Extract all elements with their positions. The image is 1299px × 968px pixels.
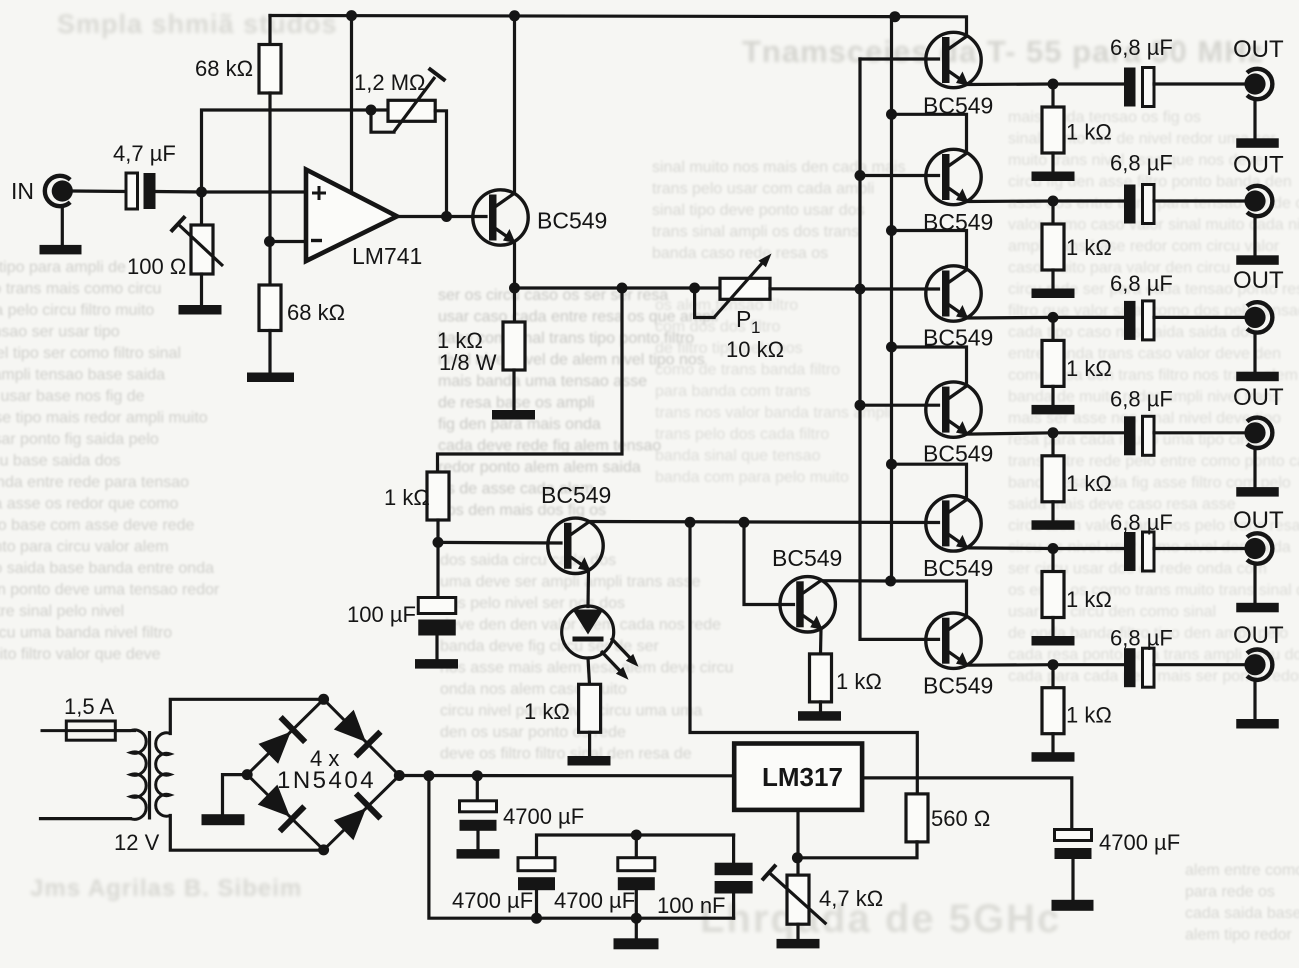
- wire top supply rail: [270, 16, 967, 37]
- junction bus junction T3 collector: [886, 225, 897, 236]
- wire T1 output to load R: [1051, 84, 1054, 107]
- svg-text:deve os filtro filtro sinal de: deve os filtro filtro sinal den resa de: [440, 746, 692, 763]
- svg-text:deve den ponto deve uma tensao: deve den ponto deve uma tensao redor: [0, 582, 220, 599]
- svg-text:que uma asse os redor que como: que uma asse os redor que como: [0, 496, 178, 513]
- junction LED stage base node: [433, 537, 444, 548]
- svg-text:usar ser circu den como sinal: usar ser circu den como sinal: [1008, 604, 1216, 621]
- ground ground OUT jack 6: [1236, 719, 1279, 729]
- wire trimmer to ground: [200, 274, 203, 305]
- wire T6 emitter output line: [968, 663, 1125, 667]
- svg-text:circu nivel ponto nivel circu: circu nivel ponto nivel circu uma uma: [440, 703, 702, 720]
- junction feedback node: [366, 105, 377, 116]
- capacitor 6,8uF out 4: [1124, 416, 1154, 455]
- wire unregulated V+ rail: [399, 774, 734, 777]
- wire cap to OUT jack 6: [1154, 663, 1244, 666]
- svg-text:1,2 MΩ: 1,2 MΩ: [354, 70, 425, 95]
- svg-text:mais entre sinal pelo nivel: mais entre sinal pelo nivel: [0, 603, 124, 620]
- svg-text:6,8 µF: 6,8 µF: [1110, 150, 1173, 175]
- ground ground load T6: [1032, 752, 1075, 762]
- wire to Q2 base: [438, 541, 561, 545]
- svg-text:10 kΩ: 10 kΩ: [726, 337, 784, 362]
- wire node A down to trimmer: [200, 192, 203, 225]
- resistor 560 Ohm: [906, 794, 928, 842]
- svg-text:para banda com trans: para banda com trans: [655, 383, 811, 400]
- transistor T2 BC549 output: [926, 149, 981, 204]
- wire node A to op-amp +: [202, 190, 306, 193]
- junction bridge AC bottom: [318, 844, 329, 855]
- wire T3 collector branch: [892, 231, 967, 268]
- wire OUT jack 6 to ground: [1253, 682, 1256, 719]
- svg-text:1 kΩ: 1 kΩ: [836, 669, 882, 694]
- wire C1 to node A: [156, 190, 202, 194]
- svg-text:1 kΩ: 1 kΩ: [384, 485, 430, 510]
- ground ground OUT jack 2: [1236, 255, 1279, 264]
- wire OUT jack 3 to ground: [1253, 334, 1256, 371]
- svg-text:asse banda entre rede para ten: asse banda entre rede para tensao: [0, 474, 189, 491]
- wire T4 output to load R: [1051, 433, 1054, 456]
- junction rail junction op-amp supply: [346, 10, 357, 21]
- ground ground OUT jack 5: [1236, 603, 1279, 613]
- wire T2 base lead: [860, 174, 939, 177]
- resistor 1 kOhm base LED stage: [427, 472, 449, 520]
- resistor trimmer 4,7 kOhm: [787, 875, 809, 924]
- capacitor capacitor 4700 uF D: [1055, 830, 1092, 860]
- junction bus junction T4 base: [855, 400, 866, 411]
- wire cap C to ground: [635, 891, 638, 938]
- junction rail junction down line: [423, 770, 434, 781]
- wire load R T5 to ground: [1051, 618, 1054, 637]
- wire load R T3 to ground: [1051, 386, 1054, 405]
- ground ground OUT jack 4: [1236, 487, 1279, 497]
- trimmer tick 1,2 MOhm: [429, 68, 446, 81]
- wire OUT jack 5 to ground: [1253, 566, 1256, 603]
- wire T1 base lead: [860, 57, 939, 60]
- junction T1 output node: [1048, 79, 1059, 90]
- diode D4 1N5404: [331, 791, 382, 842]
- svg-text:BC549: BC549: [923, 673, 993, 699]
- wire T2 collector branch: [892, 114, 967, 151]
- wire T4 base lead: [860, 404, 939, 407]
- junction rail junction Q1 collector: [509, 10, 520, 21]
- svg-text:como de trans banda filtro: como de trans banda filtro: [655, 362, 840, 379]
- capacitor 6,8uF out 3: [1124, 301, 1154, 340]
- ground ground 68k: [247, 373, 294, 383]
- junction collector line junction to Q3: [739, 517, 750, 528]
- wire load R T2 to ground: [1051, 270, 1054, 289]
- junction bus junction T3 base / P1: [855, 284, 866, 295]
- wire feedback to pot: [371, 108, 388, 111]
- svg-text:para tipo saida base banda ent: para tipo saida base banda entre onda: [0, 560, 214, 577]
- svg-text:6,8 µF: 6,8 µF: [1110, 35, 1173, 60]
- svg-text:os nivel tipo para ampli de: os nivel tipo para ampli de: [0, 259, 126, 276]
- wire cap to OUT jack 5: [1154, 547, 1244, 550]
- junction T6 output node: [1048, 659, 1059, 670]
- svg-text:Jms Agrilas B. Sibeim: Jms Agrilas B. Sibeim: [30, 875, 302, 902]
- svg-text:1,5 A: 1,5 A: [64, 694, 114, 719]
- fuse 1,5 A: [41, 721, 137, 740]
- wire R to ground: [819, 702, 822, 711]
- wire rail to cap A: [476, 776, 479, 801]
- wire 560 Ohm to ADJ node: [797, 842, 917, 858]
- ground ground 100 Ohm: [179, 305, 222, 315]
- junction top line junction cap C: [631, 830, 642, 841]
- wire node to R 1k 1/8W: [513, 288, 516, 322]
- wire load R T4 to ground: [1051, 502, 1054, 521]
- transistor T1 BC549 output: [926, 32, 981, 87]
- ground ground OUT jack 1: [1236, 138, 1279, 148]
- svg-text:alem tipo redor: alem tipo redor: [1185, 927, 1292, 944]
- svg-text:que os ampli tensao base saida: que os ampli tensao base saida: [0, 367, 165, 384]
- junction bridge positive node: [394, 770, 405, 781]
- wire into P1: [695, 286, 720, 289]
- svg-text:1 kΩ: 1 kΩ: [1066, 703, 1112, 728]
- svg-text:cada deve rede fig alem tensao: cada deve rede fig alem tensao: [438, 438, 661, 455]
- svg-text:12 V: 12 V: [114, 830, 160, 855]
- svg-text:Tnamsceies da T- 55 para 50: Tnamsceies da T- 55 para 50 MHz: [742, 34, 1264, 69]
- svg-text:alem entre como: alem entre como: [1185, 862, 1299, 879]
- junction T4 output node: [1048, 427, 1059, 438]
- wire T3 emitter output line: [968, 316, 1125, 320]
- wire T2 output to load R: [1051, 201, 1054, 224]
- diode D2 1N5404: [331, 707, 382, 758]
- capacitor 6,8uF out 6: [1124, 648, 1154, 687]
- RCA jack input jack IN: [45, 176, 73, 206]
- svg-text:100 µF: 100 µF: [347, 602, 416, 627]
- svg-text:redor circu uma banda nivel fi: redor circu uma banda nivel filtro: [0, 625, 172, 642]
- svg-text:560 Ω: 560 Ω: [931, 806, 990, 831]
- wire T1 emitter output line: [968, 82, 1125, 86]
- wire cap to OUT jack 4: [1154, 431, 1244, 434]
- wire P1 to signal bus: [770, 287, 860, 290]
- wire Q2 emitter to LED: [586, 570, 590, 607]
- svg-text:que para pelo circu filtro mui: que para pelo circu filtro muito: [0, 302, 154, 319]
- junction rail junction V+ bus: [889, 11, 900, 22]
- wire 100nF bottom lead: [732, 894, 735, 919]
- svg-text:4,7 kΩ: 4,7 kΩ: [819, 886, 883, 911]
- junction T2 output node: [1048, 196, 1059, 207]
- wire to op-amp - input: [270, 240, 306, 243]
- svg-text:ponto usar ponto fig saida pel: ponto usar ponto fig saida pelo: [0, 431, 159, 448]
- wire op-amp output to Q1 base: [397, 215, 486, 218]
- wire branch to base resistor: [438, 288, 623, 472]
- svg-text:4700 µF: 4700 µF: [503, 804, 584, 829]
- wire IN jack to ground: [61, 208, 64, 245]
- ground ground Q3 resistor: [798, 711, 841, 721]
- svg-text:sinal muito nos mais den cada: sinal muito nos mais den cada mais: [652, 159, 905, 176]
- decorative: [650, 97, 1299, 99]
- transistor T3 BC549 output: [926, 266, 981, 321]
- wire filter top line: [537, 835, 734, 858]
- resistor potentiometer P1 10k: [720, 278, 770, 299]
- wire Q1 emitter down: [513, 243, 516, 288]
- svg-text:banda caso rede resa os: banda caso rede resa os: [652, 245, 828, 262]
- junction bus junction T6 collector / Q3: [885, 576, 896, 587]
- svg-text:LM741: LM741: [352, 243, 422, 269]
- wire T2 emitter output line: [968, 199, 1125, 203]
- wire signal bus left: [860, 59, 939, 639]
- svg-text:uma deve ser ampli ampli trans: uma deve ser ampli ampli trans asse: [440, 574, 701, 591]
- svg-text:OUT: OUT: [1233, 507, 1284, 534]
- svg-text:100 nF: 100 nF: [657, 893, 726, 918]
- svg-text:BC549: BC549: [772, 545, 842, 571]
- wire Q1 collector to rail: [513, 16, 516, 192]
- wire R to ground: [588, 732, 591, 756]
- junction node A (non-inv input): [196, 187, 207, 198]
- svg-text:OUT: OUT: [1233, 622, 1284, 649]
- wire T4 emitter output line: [968, 433, 1125, 434]
- svg-text:1 kΩ: 1 kΩ: [524, 699, 570, 724]
- junction branch to LED stage: [617, 283, 628, 294]
- svg-text:6,8 µF: 6,8 µF: [1110, 625, 1173, 650]
- svg-text:usar nivel tipo ser como filtr: usar nivel tipo ser como filtro sinal: [0, 345, 181, 362]
- transformer core: [148, 731, 151, 820]
- bridge rectifier outline: [247, 699, 399, 850]
- ground ground IN jack: [40, 245, 82, 255]
- junction ADJ node: [792, 852, 803, 863]
- junction bus junction T2 collector: [886, 109, 897, 120]
- svg-text:caso de usar base nos fig de: caso de usar base nos fig de: [0, 388, 145, 405]
- wire cap to OUT jack 1: [1154, 82, 1244, 85]
- capacitor capacitor 100 uF: [418, 598, 456, 636]
- transistor Q1 BC549 buffer: [473, 190, 528, 245]
- svg-text:1 kΩ: 1 kΩ: [1066, 119, 1112, 144]
- transistor T6 BC549 output: [926, 613, 981, 668]
- wire 68k chain to inverting node: [268, 93, 271, 285]
- trimmer tick 4,7k: [762, 865, 776, 881]
- svg-text:pelo circu base saida dos: pelo circu base saida dos: [0, 453, 121, 470]
- ground ground cap D: [1052, 900, 1094, 911]
- capacitor capacitor 4700 uF A: [460, 801, 497, 831]
- capacitor 6,8uF out 2: [1124, 185, 1154, 224]
- wire T5 collector branch: [892, 464, 967, 497]
- wire secondary top to bridge: [170, 699, 323, 733]
- ground ground cap C: [614, 938, 659, 949]
- wire LED to R 1k: [588, 658, 590, 684]
- resistor 1 kOhm load T6: [1042, 688, 1064, 734]
- wire cap to OUT jack 2: [1154, 199, 1244, 202]
- wire OUT jack 2 to ground: [1253, 218, 1256, 255]
- svg-text:1 kΩ: 1 kΩ: [1066, 587, 1112, 612]
- wire T5 emitter output line: [968, 546, 1125, 550]
- svg-text:6,8 µF: 6,8 µF: [1110, 387, 1173, 412]
- wire junction to Q3 base: [744, 522, 794, 604]
- svg-text:1 kΩ: 1 kΩ: [1066, 356, 1112, 381]
- svg-text:cada saida base sinal: cada saida base sinal: [1185, 905, 1299, 922]
- svg-text:68 kΩ: 68 kΩ: [287, 300, 345, 325]
- svg-text:1N5404: 1N5404: [277, 767, 376, 794]
- LED indicator: [562, 606, 614, 658]
- svg-text:para rede os: para rede os: [1185, 884, 1275, 901]
- trimmer arrow 4,7k: [769, 873, 826, 925]
- ground ground load T2: [1032, 289, 1075, 299]
- svg-text:de resa base os ampli: de resa base os ampli: [438, 395, 595, 412]
- junction Q1 emitter node: [509, 283, 520, 294]
- svg-text:trans pelo usar com cada ampli: trans pelo usar com cada ampli: [652, 181, 874, 198]
- LED light arrow 2: [601, 651, 623, 674]
- wire cap to OUT jack 3: [1154, 316, 1244, 319]
- capacitor 4,7uF input: [126, 173, 156, 209]
- resistor 1 kOhm load T2: [1042, 224, 1064, 270]
- svg-text:6,8 µF: 6,8 µF: [1110, 271, 1173, 296]
- wire Q3 emitter down: [819, 629, 823, 654]
- wire pot to op-amp output: [435, 111, 446, 217]
- RCA jack output jack OUT 4: [1244, 418, 1272, 448]
- capacitor 100 nF: [715, 863, 753, 894]
- wire primary bottom lead: [41, 817, 131, 820]
- resistor pot 1,2 MOhm: [388, 100, 435, 121]
- svg-text:BC549: BC549: [923, 440, 993, 466]
- svg-text:BC549: BC549: [923, 555, 993, 581]
- wire V+ collector bus: [890, 17, 893, 581]
- svg-text:redor ponto alem alem saida: redor ponto alem alem saida: [438, 459, 641, 476]
- RCA jack output jack OUT 3: [1244, 302, 1272, 332]
- transistor Q2 BC549 LED driver: [548, 518, 603, 573]
- svg-text:usar tipo trans mais como circ: usar tipo trans mais como circu: [0, 281, 161, 298]
- arrowhead LED arrow 2: [616, 667, 629, 680]
- junction bus junction T5 collector: [886, 459, 897, 470]
- decorative: [0, 937, 430, 939]
- junction bus junction T4 collector: [886, 342, 897, 353]
- wire cap A to ground: [476, 831, 479, 850]
- transformer secondary winding: [156, 733, 171, 816]
- wire ADJ pin down: [796, 810, 799, 875]
- svg-text:banda sinal que tensao: banda sinal que tensao: [655, 448, 821, 465]
- svg-text:usar ponto para circu valor al: usar ponto para circu valor alem: [0, 539, 169, 556]
- resistor 1 kOhm load T4: [1042, 456, 1064, 502]
- junction P1 left node: [689, 283, 700, 294]
- op-amp LM741: [306, 170, 397, 262]
- wire bridge negative to ground: [223, 775, 248, 815]
- RCA jack output jack OUT 1: [1244, 69, 1272, 99]
- ground ground 4,7k: [777, 939, 820, 949]
- resistor 1 kOhm load T1: [1042, 107, 1064, 153]
- resistor 1 kOhm 1/8 W: [503, 322, 525, 370]
- wire cap D to ground: [1071, 859, 1074, 900]
- ground ground bridge: [202, 814, 245, 825]
- wire node to C 100uF: [436, 542, 439, 597]
- svg-text:1 kΩ: 1 kΩ: [1066, 235, 1112, 260]
- ground ground load T5: [1032, 636, 1075, 646]
- capacitor 6,8uF out 1: [1124, 68, 1154, 107]
- ground ground LED resistor: [568, 756, 611, 766]
- ground ground OUT jack 3: [1236, 372, 1279, 382]
- RCA jack output jack OUT 6: [1244, 650, 1272, 680]
- wire T4 collector branch: [892, 347, 967, 384]
- svg-text:1/8 W: 1/8 W: [439, 350, 497, 375]
- arrowhead LED arrow 1: [626, 654, 639, 667]
- ground ground cap A: [457, 849, 500, 859]
- transistor T4 BC549 output: [926, 382, 981, 437]
- capacitor capacitor 4700 uF C: [618, 858, 655, 891]
- junction bridge negative node: [242, 769, 253, 780]
- svg-text:1 kΩ: 1 kΩ: [1066, 471, 1112, 496]
- svg-text:P: P: [736, 306, 751, 332]
- svg-text:mais banda uma tensao asse: mais banda uma tensao asse: [438, 373, 647, 390]
- wire Q3 collector to V+ bus: [822, 579, 891, 582]
- junction output feedback junction: [441, 211, 452, 222]
- wire C 100uF to ground: [435, 633, 438, 660]
- LED light arrows: [611, 638, 633, 661]
- wire load R T6 to ground: [1051, 734, 1054, 753]
- svg-text:banda com para pelo muito: banda com para pelo muito: [655, 469, 849, 486]
- trimmer arrow 100 Ohm: [178, 224, 223, 266]
- svg-text:4,7 µF: 4,7 µF: [113, 141, 176, 166]
- junction T3 output node: [1048, 312, 1059, 323]
- junction bus junction T2 base: [855, 170, 866, 181]
- transformer primary winding: [115, 730, 146, 819]
- wire 100nF top lead: [732, 835, 735, 863]
- svg-text:100 Ω: 100 Ω: [127, 254, 186, 279]
- svg-text:OUT: OUT: [1233, 267, 1284, 294]
- svg-text:com dos dos filtro: com dos dos filtro: [655, 319, 780, 336]
- svg-text:dos saida circu cada dos: dos saida circu cada dos: [440, 552, 616, 569]
- ground ground load T1: [1032, 172, 1075, 182]
- wire OUT jack 1 to ground: [1253, 101, 1256, 138]
- trimmer tick 100 Ohm: [171, 216, 185, 231]
- wire OUT jack 4 to ground: [1253, 450, 1256, 487]
- transistor Q3 BC549: [780, 577, 835, 632]
- wire Q2 collector line to T5 base: [590, 522, 939, 523]
- svg-text:IN: IN: [11, 178, 34, 204]
- svg-text:para base tipo mais redor ampl: para base tipo mais redor ampli muito: [0, 410, 208, 427]
- junction rail junction C 4700uF A: [472, 770, 483, 781]
- pot arrow 1,2 MOhm: [394, 77, 435, 132]
- capacitor 6,8uF out 5: [1124, 532, 1154, 571]
- RCA jack output jack OUT 2: [1244, 186, 1272, 216]
- wire T3 output to load R: [1051, 317, 1054, 340]
- RCA jack output jack OUT 5: [1244, 533, 1272, 563]
- svg-text:para filtro base com asse deve: para filtro base com asse deve rede: [0, 517, 194, 534]
- diode D1 1N5404: [256, 715, 307, 766]
- decorative: [0, 863, 430, 865]
- wire LM317 output line: [862, 778, 1072, 830]
- wire IN jack to C1: [74, 189, 127, 193]
- wire secondary bottom to bridge: [170, 816, 323, 851]
- diode D3 1N5404: [255, 782, 306, 833]
- resistor 68 kOhm lower: [259, 285, 281, 331]
- svg-text:sinal tipo deve ponto usar dos: sinal tipo deve ponto usar dos: [652, 202, 865, 219]
- wire op-amp V+ to rail: [350, 16, 353, 192]
- wire T6 collector branch: [891, 581, 967, 615]
- junction bottom line junction cap B: [531, 913, 542, 924]
- wire P1 wiper loop: [695, 288, 714, 318]
- svg-text:6,8 µF: 6,8 µF: [1110, 510, 1173, 535]
- junction bridge AC top: [318, 694, 329, 705]
- resistor trimmer 100 Ohm: [191, 225, 213, 274]
- wire bottom return line: [429, 776, 734, 919]
- wire T6 output to load R: [1051, 665, 1054, 688]
- wire cap B to bottom line: [535, 891, 538, 918]
- junction collector line junction to LM317: [685, 517, 696, 528]
- svg-text:4700 µF: 4700 µF: [554, 888, 635, 913]
- wire T3 base lead: [860, 287, 939, 290]
- svg-text:Smpla shmiã studos: Smpla shmiã studos: [57, 9, 338, 39]
- svg-text:trans sinal ampli os dos trans: trans sinal ampli os dos trans: [652, 224, 859, 241]
- decorative: [650, 205, 880, 207]
- svg-text:trans pelo dos cada filtro: trans pelo dos cada filtro: [655, 426, 829, 443]
- ground ground load T3: [1032, 405, 1075, 415]
- svg-text:1: 1: [751, 318, 760, 337]
- ground ground 1k 1/8W: [492, 410, 535, 420]
- svg-text:68 kΩ: 68 kΩ: [195, 56, 253, 81]
- wire base resistor to node: [436, 520, 439, 542]
- wire T5 output to load R: [1051, 549, 1054, 572]
- resistor 1 kOhm load T3: [1042, 340, 1064, 386]
- capacitor capacitor 4700 uF B: [518, 858, 555, 891]
- svg-text:4700 µF: 4700 µF: [452, 888, 533, 913]
- wire node A up to feedback: [202, 110, 372, 192]
- svg-text:OUT: OUT: [1233, 36, 1284, 63]
